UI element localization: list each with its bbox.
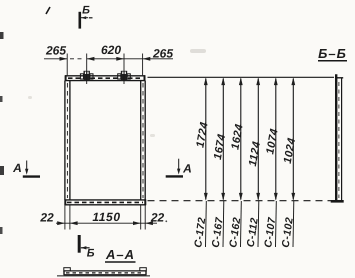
left stile (vertical member) bbox=[65, 81, 70, 200]
svg-text:А: А bbox=[182, 162, 192, 176]
vertical dimension line 1124 bbox=[257, 79, 259, 200]
section A-A right end batten bbox=[140, 268, 147, 271]
vertical dimension line 1024 bbox=[292, 79, 294, 200]
svg-text:А–А: А–А bbox=[105, 247, 135, 262]
svg-text:620: 620 bbox=[101, 43, 121, 57]
top dimension line 265/620/265 bbox=[44, 58, 173, 60]
arrowheads of top dimension bbox=[60, 57, 151, 61]
section B-B bar (edge view of panel) bbox=[331, 74, 344, 202]
speck after right 22 bbox=[165, 220, 167, 222]
svg-text:1024: 1024 bbox=[282, 137, 298, 165]
dimension line tails below datum bbox=[206, 201, 294, 247]
vertical dimension line 1624 bbox=[240, 79, 242, 200]
svg-text:265: 265 bbox=[45, 44, 66, 58]
svg-text:Б: Б bbox=[82, 5, 90, 17]
top datum line to section bar bbox=[148, 76, 335, 78]
section label Б-Б with underline bbox=[318, 46, 347, 61]
svg-text:1724: 1724 bbox=[194, 121, 210, 149]
scan artifact left edge marks bbox=[0, 32, 4, 234]
svg-text:Б–Б: Б–Б bbox=[318, 46, 347, 61]
section label А-А with underline bbox=[105, 247, 136, 262]
section A-A base line bbox=[57, 275, 150, 277]
scan artifact top tick bbox=[46, 7, 50, 14]
extension lines below stiles for 22/1150/22 dimension bbox=[65, 205, 145, 230]
arrowheads of vertical dimension lines bbox=[204, 77, 295, 200]
extension lines above for 265/620/265 dimension bbox=[67, 54, 142, 85]
top rail of panel (plan view) bbox=[65, 75, 145, 81]
right stile (vertical member) bbox=[141, 81, 146, 200]
svg-text:1150: 1150 bbox=[92, 210, 120, 224]
vertical dimension line 1724 bbox=[205, 79, 207, 200]
svg-text:Б: Б bbox=[87, 248, 95, 260]
svg-text:1074: 1074 bbox=[264, 128, 280, 156]
svg-text:265: 265 bbox=[152, 46, 173, 60]
svg-text:1124: 1124 bbox=[247, 140, 263, 167]
svg-text:1624: 1624 bbox=[229, 123, 245, 151]
vertical dimension line 1674 bbox=[222, 79, 224, 200]
arrowheads of bottom dimension bbox=[57, 221, 153, 225]
svg-text:22: 22 bbox=[150, 211, 165, 225]
svg-text:1674: 1674 bbox=[212, 133, 228, 161]
left lifting loop bbox=[80, 71, 93, 81]
section mark B bottom (cut symbol with arrow) bbox=[79, 235, 95, 260]
section A-A left end batten bbox=[64, 268, 71, 271]
section mark A right (arrow onto cut plane) bbox=[166, 159, 192, 177]
faint smudge artifacts bbox=[28, 49, 206, 137]
right lifting loop bbox=[118, 71, 131, 81]
section mark A left (arrow onto cut plane) bbox=[12, 161, 40, 177]
bottom datum dashed line bbox=[148, 200, 340, 202]
bottom dimension line 22/1150/22 bbox=[56, 222, 157, 224]
svg-text:А: А bbox=[12, 161, 22, 175]
section A-A plate body bbox=[64, 271, 147, 275]
vertical dimension line 1074 bbox=[275, 79, 277, 200]
bottom rail of panel bbox=[65, 200, 146, 206]
svg-text:22: 22 bbox=[39, 211, 54, 225]
section mark B top (cut symbol with arrow) bbox=[80, 5, 93, 29]
